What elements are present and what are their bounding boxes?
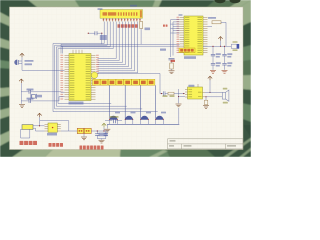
MP3 decoder IC U2 xyxy=(184,16,203,55)
ground xyxy=(99,140,105,143)
wire label row to button xyxy=(140,85,142,120)
button K1 xyxy=(110,116,118,120)
designator U2 xyxy=(184,56,196,59)
charger IC TP4056 U5 xyxy=(48,123,57,132)
capacitor C near BT xyxy=(145,28,151,31)
crystal Y1 body xyxy=(32,95,36,99)
label xyxy=(160,49,166,51)
MCU pins xyxy=(65,56,96,100)
title block label Title xyxy=(170,140,176,141)
wire label row to button xyxy=(155,85,157,120)
wire bus BT to left bus (nested) xyxy=(53,22,158,112)
power flag VCC xyxy=(20,53,24,57)
amp input resistor xyxy=(168,92,174,95)
power flag VCC xyxy=(208,76,212,80)
yellow highlight node on MCU pin xyxy=(91,72,97,78)
power flag VCC xyxy=(37,113,41,117)
designator U3 xyxy=(188,85,194,87)
green sunburst background xyxy=(0,0,251,157)
jack value xyxy=(233,49,238,51)
yellow net label over U2 corner xyxy=(179,48,195,53)
ground xyxy=(19,105,25,108)
red label 蓝牙模块 xyxy=(118,24,138,28)
power input connector J2 xyxy=(22,125,33,130)
resistor R near BT xyxy=(140,22,143,29)
button network xyxy=(0,0,1,1)
red label 电源电路 xyxy=(49,143,64,147)
wire mic to MCU xyxy=(22,69,65,71)
title block label Size xyxy=(169,145,174,146)
amp IC U3 body xyxy=(188,87,203,99)
mic label2 xyxy=(25,63,33,65)
speaker value xyxy=(223,102,228,104)
ground xyxy=(104,129,110,132)
ground xyxy=(169,71,175,74)
cap near U2 xyxy=(169,58,175,60)
mic label xyxy=(25,60,34,62)
label R xyxy=(170,95,175,97)
MCU U1 (STC89C52) xyxy=(69,54,91,101)
wire label row to button xyxy=(109,85,111,120)
amp input coupling cap xyxy=(160,93,163,95)
reset cap label xyxy=(100,35,107,40)
resistor right of U2 xyxy=(212,21,221,24)
label above BT xyxy=(98,8,103,10)
switch/cap on 3.3V rail top xyxy=(105,120,112,122)
designator U4 xyxy=(130,5,137,7)
net label red xyxy=(171,60,176,62)
3.3V filter caps xyxy=(96,131,98,134)
power flag VCC xyxy=(102,123,106,127)
button K4 xyxy=(156,116,164,120)
cap labels xyxy=(99,133,108,137)
designator TP4056 xyxy=(47,133,57,136)
protection components (yellow) xyxy=(77,128,84,133)
label C xyxy=(163,95,168,97)
schematic sheet xyxy=(10,7,244,150)
ground xyxy=(176,104,182,107)
power flag VCC xyxy=(19,79,23,83)
label R xyxy=(163,25,168,27)
cap label 30pF xyxy=(27,98,34,100)
MCU top pin stubs xyxy=(73,50,82,54)
MCU pin numbers xyxy=(60,55,98,100)
ground xyxy=(203,106,209,109)
label above U2 xyxy=(179,14,183,16)
output filter caps xyxy=(212,46,214,54)
wire U2 to headphone jack xyxy=(203,45,231,47)
cap label 30pF xyxy=(27,89,34,91)
resistor below cap xyxy=(170,63,173,69)
resistor to ground below amp output xyxy=(205,97,207,100)
button K2 xyxy=(125,116,133,120)
title block label Number xyxy=(184,145,192,146)
U2 pins xyxy=(180,18,208,53)
module text Blue_BT 888888 xyxy=(103,12,138,16)
reset circuit RC xyxy=(88,32,95,34)
bluetooth module pins xyxy=(104,18,141,21)
loop below connector xyxy=(21,129,30,138)
crystal label Y1 xyxy=(37,95,42,98)
bluetooth module U4 xyxy=(100,10,143,19)
wires amp to speaker xyxy=(205,91,222,93)
yellow highlighted net label row xyxy=(93,79,101,85)
wire MCU to amp input xyxy=(98,74,161,94)
ground xyxy=(81,137,87,140)
wire bus BT to MCU right pins (staircase) xyxy=(98,22,138,73)
wire label row to button xyxy=(124,85,126,120)
jack label xyxy=(233,41,238,43)
ground xyxy=(210,70,216,73)
microphone MIC xyxy=(14,60,17,65)
wire xyxy=(225,22,227,46)
ground xyxy=(222,70,228,73)
title block label Revision xyxy=(227,145,236,146)
red label 3.3V电源电路 xyxy=(80,146,104,150)
power flag VCC xyxy=(218,37,222,41)
speaker LS1 (outline) xyxy=(222,90,229,101)
button K3 xyxy=(141,116,149,120)
crystal circuit Y1 xyxy=(20,83,22,104)
MCU internal pin labels xyxy=(70,55,90,100)
wires left of U2 xyxy=(170,20,172,57)
wire button common rail xyxy=(107,123,179,125)
headphone jack J1 xyxy=(231,44,238,48)
watermark blobs top-right xyxy=(215,0,226,3)
title block xyxy=(168,139,244,149)
long wires MCU area to right IC xyxy=(61,43,180,45)
designator U1 xyxy=(69,102,84,105)
red label 电源输入 xyxy=(20,141,38,145)
cap to ground at amp input xyxy=(178,89,180,103)
speaker label xyxy=(223,88,228,90)
